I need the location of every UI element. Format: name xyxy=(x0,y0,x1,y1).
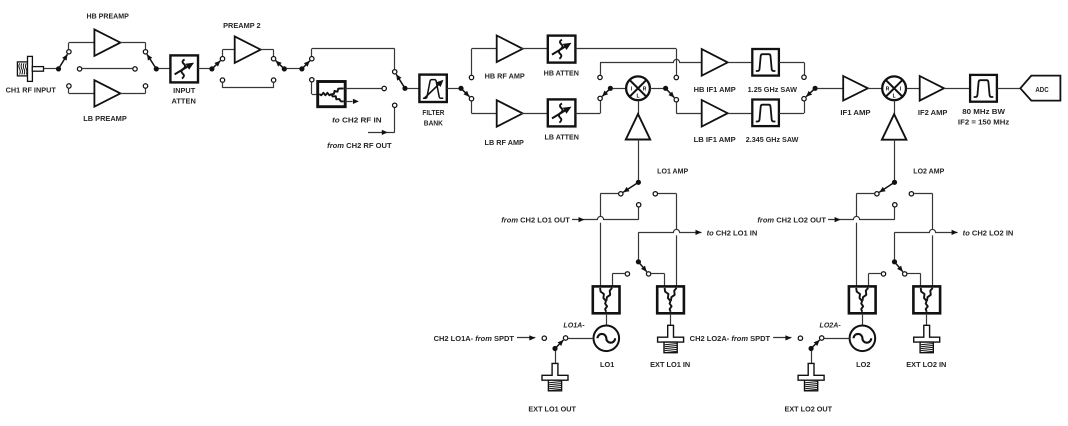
svg-text:LO1: LO1 xyxy=(600,362,614,369)
svg-text:L: L xyxy=(636,94,639,100)
svg-text:LB IF1 AMP: LB IF1 AMP xyxy=(694,137,736,144)
svg-text:LB RF AMP: LB RF AMP xyxy=(485,140,525,147)
svg-text:EXT LO1 OUT: EXT LO1 OUT xyxy=(528,406,576,413)
svg-text:IF2 AMP: IF2 AMP xyxy=(918,110,948,117)
svg-text:HB ATTEN: HB ATTEN xyxy=(544,70,579,77)
svg-text:L: L xyxy=(893,94,896,100)
svg-text:LO2 AMP: LO2 AMP xyxy=(913,169,944,176)
svg-text:R: R xyxy=(643,87,647,93)
svg-text:EXT LO1 IN: EXT LO1 IN xyxy=(650,362,690,369)
svg-text:LO1 AMP: LO1 AMP xyxy=(657,169,688,176)
svg-text:ATTEN: ATTEN xyxy=(172,99,196,106)
svg-text:from CH2 LO2 OUT: from CH2 LO2 OUT xyxy=(757,218,826,225)
svg-text:to CH2 RF IN: to CH2 RF IN xyxy=(332,118,382,125)
svg-text:LO2: LO2 xyxy=(856,362,870,369)
svg-text:HB PREAMP: HB PREAMP xyxy=(87,14,130,21)
svg-text:HB IF1 AMP: HB IF1 AMP xyxy=(694,87,736,94)
svg-text:ADC: ADC xyxy=(1035,85,1049,94)
svg-text:HB RF AMP: HB RF AMP xyxy=(485,74,526,81)
svg-text:1.25 GHz SAW: 1.25 GHz SAW xyxy=(748,87,798,94)
svg-text:LB ATTEN: LB ATTEN xyxy=(545,135,579,142)
svg-text:CH2 LO1A- from SPDT: CH2 LO1A- from SPDT xyxy=(434,336,515,343)
svg-text:PREAMP 2: PREAMP 2 xyxy=(223,23,261,30)
svg-text:EXT LO2 IN: EXT LO2 IN xyxy=(906,362,946,369)
svg-text:from CH2 RF OUT: from CH2 RF OUT xyxy=(327,143,392,150)
svg-text:to CH2 LO2 IN: to CH2 LO2 IN xyxy=(963,231,1014,238)
svg-text:R: R xyxy=(886,87,890,93)
svg-text:from CH2 LO1 OUT: from CH2 LO1 OUT xyxy=(501,218,570,225)
svg-text:2.345 GHz SAW: 2.345 GHz SAW xyxy=(746,137,799,144)
svg-text:FILTER: FILTER xyxy=(422,110,444,117)
svg-text:EXT LO2 OUT: EXT LO2 OUT xyxy=(785,406,833,413)
svg-text:LO2A-: LO2A- xyxy=(820,323,842,330)
svg-text:LB PREAMP: LB PREAMP xyxy=(83,116,127,123)
svg-text:80 MHz BW: 80 MHz BW xyxy=(962,109,1005,116)
svg-text:to CH2 LO1 IN: to CH2 LO1 IN xyxy=(707,231,758,238)
svg-text:CH2 LO2A- from SPDT: CH2 LO2A- from SPDT xyxy=(690,336,771,343)
svg-text:INPUT: INPUT xyxy=(173,88,196,95)
svg-text:IF2 = 150 MHz: IF2 = 150 MHz xyxy=(958,120,1010,127)
svg-text:LO1A-: LO1A- xyxy=(563,323,585,330)
svg-text:BANK: BANK xyxy=(424,121,443,128)
svg-text:IF1 AMP: IF1 AMP xyxy=(840,110,871,117)
svg-text:CH1 RF INPUT: CH1 RF INPUT xyxy=(6,87,57,94)
